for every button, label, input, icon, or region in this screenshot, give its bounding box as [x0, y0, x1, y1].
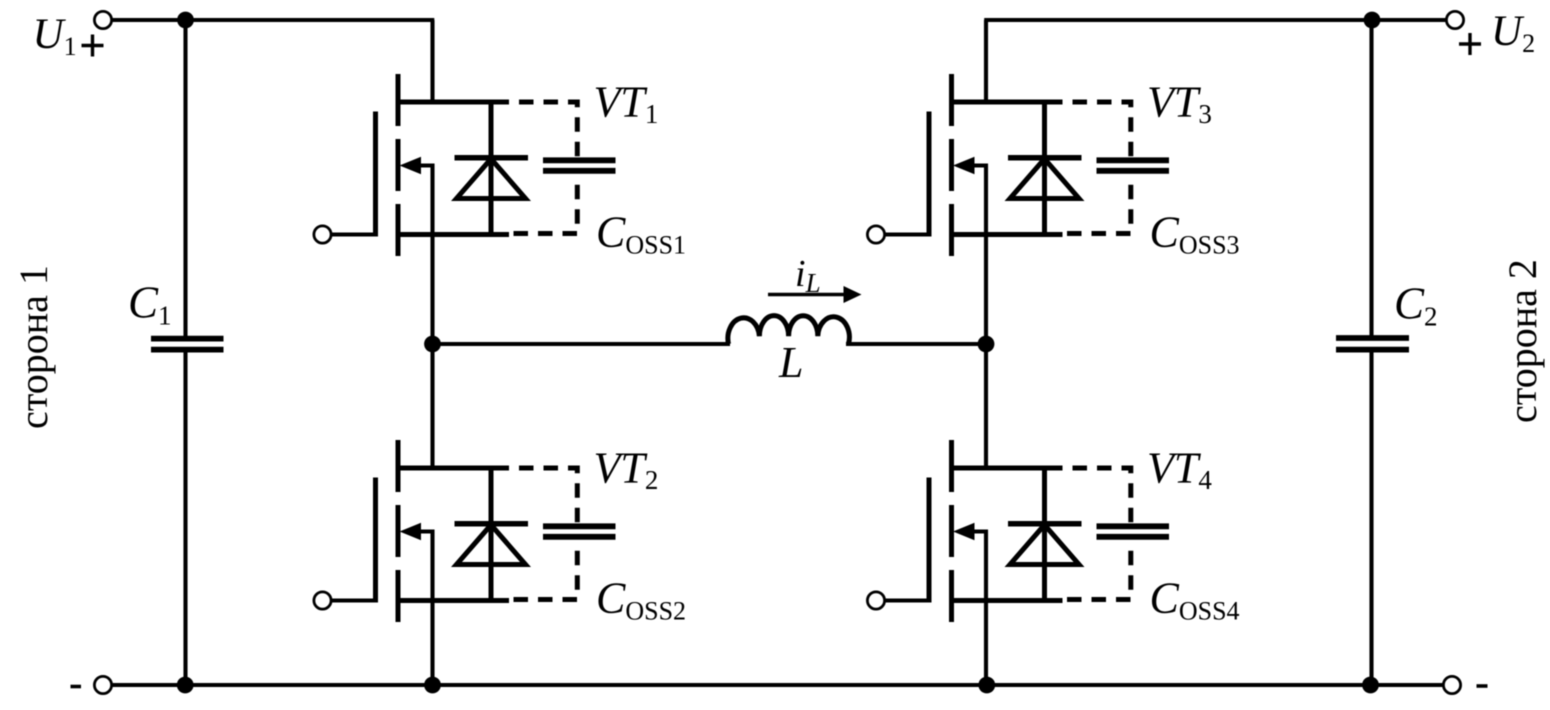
diode VD4 triangle: [1010, 525, 1079, 565]
svg-text:COSS4: COSS4: [1150, 574, 1240, 626]
svg-text:L: L: [778, 338, 803, 387]
diode VD2 triangle: [457, 525, 526, 565]
junction bottom C2: [1362, 677, 1379, 694]
transistor VT2 gate terminal circle: [314, 592, 331, 609]
node U2 negative terminal: [1443, 676, 1460, 693]
current arrow i_L: [768, 286, 862, 303]
transistor VT3 drain lead: [952, 100, 1063, 105]
transistor VT3 (N-MOSFET) channel: [949, 74, 954, 258]
wire VT3 drain drop: [984, 20, 988, 102]
node U1 negative terminal: [94, 676, 111, 693]
transistor VT4 gate electrode: [927, 478, 932, 603]
junction bottom C1: [177, 677, 194, 694]
junction top-right (C2 tap): [1364, 12, 1381, 29]
transistor VT3 body arrow: [953, 157, 986, 235]
wire C2 lower lead: [1369, 350, 1373, 685]
diode VD4 (body diode of VT4) lead: [1042, 468, 1047, 601]
label C2: [1394, 279, 1438, 332]
transistor VT1 gate terminal circle: [314, 226, 331, 243]
capacitor C_OSS1 plates: [543, 160, 616, 171]
node U1 positive terminal: [94, 11, 111, 28]
transistor VT2 source lead: [398, 598, 509, 603]
label U2: [1491, 8, 1535, 58]
transistor VT2 gate electrode: [373, 478, 378, 603]
wire VT2 drain from node A: [430, 344, 434, 468]
transistor VT3 gate lead wire: [884, 232, 929, 236]
wire C1 upper lead: [183, 20, 187, 339]
wire C2 upper lead: [1369, 20, 1373, 338]
capacitor C_OSS2 dashed box top/right edge: [509, 468, 577, 522]
svg-text:VT1: VT1: [594, 78, 659, 130]
svg-text:VT4: VT4: [1147, 444, 1212, 496]
svg-text:iL: iL: [795, 253, 821, 298]
transistor VT2 drain lead: [398, 466, 509, 471]
svg-text:U1: U1: [33, 11, 77, 61]
wire VT2 source drop: [430, 601, 434, 686]
capacitor C_OSS4 dashed box right/bottom edge: [1063, 541, 1131, 600]
capacitor C_OSS4 dashed box top/right edge: [1063, 468, 1131, 522]
node U2 positive terminal: [1446, 11, 1463, 28]
inductor L: [728, 316, 849, 344]
transistor VT1 gate electrode: [373, 112, 378, 237]
diode VD3 triangle: [1010, 159, 1079, 199]
label U1: [33, 11, 77, 61]
label C1: [128, 278, 172, 331]
capacitor C_OSS3 dashed box top/right edge: [1063, 102, 1131, 156]
capacitor C_OSS3 dashed box right/bottom edge: [1063, 175, 1131, 234]
diode VD1 triangle: [457, 159, 526, 199]
capacitor C_OSS4 plates: [1097, 526, 1170, 537]
transistor VT4 gate terminal circle: [867, 592, 884, 609]
diode VD1 cathode bar: [455, 155, 529, 161]
wire top-left rail: [111, 18, 434, 22]
label VT2: [594, 444, 659, 496]
diode VD1 (body diode of VT1) lead: [489, 102, 494, 235]
label L: [778, 338, 803, 387]
plus sign (U2 polarity): [1459, 33, 1481, 55]
label C_OSS4: [1150, 574, 1240, 626]
transistor VT4 source lead: [952, 598, 1063, 603]
transistor VT4 (N-MOSFET) channel: [949, 440, 954, 624]
diode VD3 (body diode of VT3) lead: [1042, 102, 1047, 235]
label C_OSS2: [596, 574, 686, 626]
svg-text:COSS3: COSS3: [1150, 208, 1240, 260]
wire VT1 source to node A: [430, 235, 434, 345]
transistor VT3 gate terminal circle: [867, 226, 884, 243]
minus sign (U2 polarity): [1477, 684, 1488, 688]
wire VT4 drain from node B: [984, 344, 988, 468]
capacitor C_OSS3 plates: [1097, 160, 1170, 171]
caption side 2 (сторона 2): [1500, 259, 1545, 423]
svg-text:VT2: VT2: [594, 444, 659, 496]
junction top-left (C1 tap): [177, 12, 194, 29]
wire C1 lower lead: [183, 350, 187, 685]
transistor VT1 drain lead: [398, 100, 509, 105]
junction node A (left midpoint): [424, 336, 441, 353]
wire top-right rail: [984, 18, 1447, 22]
label C_OSS1: [596, 208, 686, 260]
transistor VT3 source lead: [952, 232, 1063, 237]
svg-text:сторона 1: сторона 1: [11, 265, 56, 429]
caption side 1 (сторона 1): [11, 265, 56, 429]
transistor VT1 body arrow: [400, 157, 433, 235]
wire inductor to node B: [846, 342, 986, 346]
svg-text:сторона 2: сторона 2: [1500, 259, 1545, 423]
svg-text:C2: C2: [1394, 279, 1438, 332]
svg-text:COSS1: COSS1: [596, 208, 686, 260]
junction bottom VT4: [978, 677, 995, 694]
svg-text:COSS2: COSS2: [596, 574, 686, 626]
transistor VT2 (N-MOSFET) channel: [396, 440, 401, 624]
label VT1: [594, 78, 659, 130]
label VT3: [1147, 78, 1212, 130]
minus sign (U1 polarity): [71, 685, 82, 689]
transistor VT1 (N-MOSFET) channel: [396, 74, 401, 258]
diode VD2 (body diode of VT2) lead: [489, 468, 494, 601]
transistor VT4 body arrow: [953, 523, 986, 601]
diode VD4 cathode bar: [1008, 521, 1082, 527]
diode VD2 cathode bar: [455, 521, 529, 527]
diode VD3 cathode bar: [1008, 155, 1082, 161]
wire VT4 source drop: [984, 601, 988, 686]
svg-text:U2: U2: [1491, 8, 1535, 58]
capacitor C2 plates: [1336, 338, 1409, 350]
transistor VT2 body arrow: [400, 523, 433, 601]
capacitor C1 plates: [151, 339, 224, 350]
transistor VT2 gate lead wire: [331, 598, 376, 602]
wire VT1 drain drop: [430, 20, 434, 102]
transistor VT1 gate lead wire: [331, 232, 376, 236]
plus sign (U1 polarity): [82, 35, 104, 57]
wire VT3 source to node B: [984, 235, 988, 345]
capacitor C_OSS2 dashed box right/bottom edge: [509, 541, 577, 600]
junction node B (right midpoint): [978, 336, 995, 353]
capacitor C_OSS1 dashed box right/bottom edge: [509, 175, 577, 234]
capacitor C_OSS2 plates: [543, 526, 616, 537]
label i_L: [795, 253, 821, 298]
transistor VT3 gate electrode: [927, 112, 932, 237]
transistor VT4 gate lead wire: [884, 598, 929, 602]
svg-text:C1: C1: [128, 278, 172, 331]
svg-text:VT3: VT3: [1147, 78, 1212, 130]
junction bottom VT2: [424, 677, 441, 694]
label C_OSS3: [1150, 208, 1240, 260]
label VT4: [1147, 444, 1212, 496]
transistor VT4 drain lead: [952, 466, 1063, 471]
wire node A to inductor: [433, 342, 731, 346]
capacitor C_OSS1 dashed box top/right edge: [509, 102, 577, 156]
transistor VT1 source lead: [398, 232, 509, 237]
wire bottom rail: [111, 683, 1444, 687]
